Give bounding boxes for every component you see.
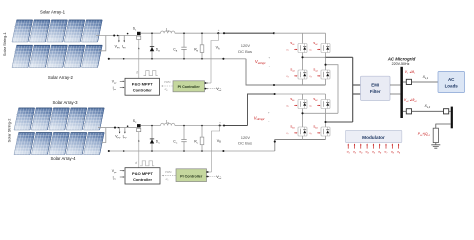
EMI input stub 2 [353,93,361,95]
solar panel 5 of row [84,108,105,130]
panel connector [80,30,81,32]
modulator gate signal arrow alpha6 [379,145,381,149]
node on converter 2 rail after input [127,125,129,127]
solar panel mounting rails [13,27,101,36]
inductor L2 [161,123,175,125]
solar panel 4 of row [66,133,87,155]
solar panel 1 of row [14,108,35,130]
gate arrow of Sa4 [317,75,319,77]
solar panel 1 of row [12,45,33,67]
P&O MPPT controller box (converter 1) [125,78,160,95]
panel connector [30,143,31,145]
panel connector [46,55,47,57]
AC microgrid bus bar 1 [400,67,403,118]
dark DC bus 2 segment [224,125,248,127]
wire DC bus 2 riser to inverter 2 top rail [248,94,275,126]
solar panel 1 of row [12,20,33,42]
svg-text:d: d [135,161,137,165]
panel connector [48,143,49,145]
svg-text:PWM: PWM [164,80,170,84]
solar panel mounting rails [15,139,103,148]
svg-text:α2: α2 [309,50,311,53]
measurement tap Vpv (string 1) [118,36,120,41]
wire converter 1 negative to inverter 1 bottom rail [246,59,326,85]
svg-text:120V: 120V [241,135,251,140]
solar panel 3 of row [47,20,68,42]
panel connector [30,118,31,120]
wire converter 1 positive rail [141,32,224,34]
panel connector [63,30,64,32]
modulator gate signal arrow alpha3 [360,145,362,149]
inverter 1 right leg wire [325,33,327,85]
svg-text:α8: α8 [309,133,311,136]
svg-text:Solar Array-1: Solar Array-1 [40,10,66,15]
AC trunk wire to EMI filter [352,57,354,122]
svg-text:Solar Array-2: Solar Array-2 [48,75,74,80]
inverter 1 left leg wire [302,33,304,85]
resistor RB [201,33,203,45]
svg-text:PWM: PWM [165,170,171,174]
PWM waveform symbol (converter 2) [140,161,154,166]
svg-text:PI Controller: PI Controller [180,174,203,178]
inverter 1 output B wire (series link upper) [326,65,339,114]
inverter switch Sa2 (MOSFET with body diode) [321,44,330,53]
modulator gate signal arrow alpha9 [398,145,400,149]
modulator gate signal arrow alpha2 [354,145,356,149]
Vref arrow into PI controller 1 [206,88,220,90]
svg-text:PI Controller: PI Controller [178,85,201,89]
gate arrow of Sa1 [294,48,296,50]
svg-text:Solar String-2: Solar String-2 [7,119,12,143]
capacitor CC [183,126,185,140]
wire bus bar 2 to load impedance [436,124,451,128]
svg-text:+: + [268,111,270,115]
svg-text:α5: α5 [286,106,288,109]
svg-text:α4: α4 [309,76,311,79]
panel connector [28,30,29,32]
panel connector [46,30,47,32]
EMI output wire 2 [390,93,400,95]
svg-text:-: - [269,64,270,68]
svg-text:Solar Array-3: Solar Array-3 [52,100,78,105]
Vref arrow into PI controller 2 [208,176,221,178]
measurement tap Vpv (string 2) [119,128,121,132]
inverter 2 left leg wire [302,94,304,140]
node VA tap on DC bus 1 [217,32,219,34]
switch S2 (series switch of buck converter 2) [137,124,141,132]
solar panel 5 of row [82,45,103,67]
PWM waveform symbol (converter 1) [144,71,158,76]
solar panel mounting rails [15,115,103,124]
ground symbol [431,145,440,148]
svg-text:+: + [219,120,221,124]
solar panel 3 of row [47,45,68,67]
svg-text:α6: α6 [309,106,311,109]
inverter switch Sb4 (MOSFET with body diode) [321,127,330,136]
switch S1 (series switch of buck converter 1) [137,32,141,40]
feeder wire Xs1 [412,81,439,83]
EMI output wire 1 [390,84,400,86]
panel connector [82,143,83,145]
svg-text:DC Bus: DC Bus [238,49,252,54]
solar panel 5 of row [84,133,105,155]
node junction on string 2 positive wire [114,127,116,129]
current direction arrow Ipv (string 2) [118,127,120,129]
Modulator box [346,130,402,142]
freewheel diode DC [151,126,153,152]
wire converter 2 positive rail [141,125,224,127]
wire from solar string 1 positive to converter 1 [96,35,137,37]
svg-text:AC Microgrid: AC Microgrid [387,56,416,61]
svg-text:α3: α3 [286,76,288,79]
solar panel 3 of row [49,108,70,130]
svg-text:P&O MPPT: P&O MPPT [132,82,153,87]
panel connector [28,55,29,57]
dashed duty signal arrow PI1 to PWM1 [162,85,172,87]
modulator gate signal arrow alpha8 [391,145,393,149]
svg-text:Loads: Loads [445,84,459,89]
panel connector [48,118,49,120]
feeder wire Xs2 [412,110,444,112]
breaker node square 2b [444,109,449,114]
negative rail junction dots converter 1 [123,58,125,60]
freewheel diode DB [151,33,153,59]
negative rail junction dots converter 2 [123,150,125,152]
EMI input stub 1 [353,84,361,86]
resistor RC [201,126,203,138]
inverter switch Sb3 (MOSFET with body diode) [298,127,307,136]
gate arrow of Sb4 [317,132,319,134]
dark DC bus 1 segment [224,32,274,34]
dashed duty signal arrow PI2 to PWM2 [163,175,176,177]
modulator gate signal arrow alpha4 [366,145,368,149]
svg-text:Modulator: Modulator [362,135,385,140]
svg-text:Controller: Controller [133,177,153,182]
wire DC bus 1 to inverter 1 top rail [274,32,326,34]
PI controller 2 box [176,169,207,182]
svg-text:120V: 120V [241,43,251,48]
gate arrow of Sb2 [317,104,319,106]
wire resistor to ground [435,143,437,145]
modulator gate signal arrow alpha7 [385,145,387,149]
gate arrow of Sa2 [317,48,319,50]
VA sense wire to PI controller 1 [211,33,218,83]
inverter 2 right leg wire [325,94,327,140]
modulator gate signal arrow alpha1 [347,145,349,149]
panel connector [65,143,66,145]
gate arrow of Sb3 [294,132,296,134]
inductor L1 [161,31,175,33]
svg-text:-: - [268,120,269,124]
solar panel 1 of row [14,133,35,155]
gate drive wire from PWM to S1 [138,39,140,78]
solar panel 2 of row [29,45,50,67]
load impedance resistor PL2 [433,128,438,142]
measurement tap Ipv (string 2) [124,128,126,132]
wire solar string 2 series link [102,128,106,143]
wire from solar string 2 positive to converter 2 [98,127,137,129]
node on converter 1 rail after input [127,33,129,35]
current direction arrow Ipv [117,35,119,37]
solar panel mounting rails [13,52,101,61]
wire converter 2 negative rail [109,150,275,152]
inverter 2 output B wire (series link lower) [303,112,339,114]
svg-text:Solar String-1: Solar String-1 [2,32,7,56]
measurement tap Ipv (string 1) [123,36,125,41]
node start of converter 2 negative rail [108,150,110,152]
solar panel 4 of row [66,108,87,130]
svg-text:DC Bus: DC Bus [238,140,252,145]
svg-text:+: + [218,28,220,32]
solar panel 4 of row [64,45,85,67]
svg-text:Solar Array-4: Solar Array-4 [50,156,76,161]
panel connector [65,118,66,120]
inverter switch Sa1 (MOSFET with body diode) [298,44,307,53]
solar panel 3 of row [49,133,70,155]
inverter switch Sa4 (MOSFET with body diode) [321,70,330,79]
EMI filter box [361,76,391,100]
P&O MPPT controller box (converter 2) [125,168,160,184]
svg-text:EMI: EMI [371,82,379,87]
capacitor CB [183,33,185,47]
inverter 1 output A wire (to EMI trunk) [303,56,326,58]
panel connector [82,118,83,120]
node junction on string 1 positive wire [113,34,115,36]
inverter switch Sb1 (MOSFET with body diode) [298,100,307,109]
svg-text:220V-50Hz: 220V-50Hz [392,62,410,66]
AC Loads box [438,72,465,93]
svg-text:Controller: Controller [133,88,153,93]
modulator gate signal arrow alpha5 [372,145,374,149]
svg-text:AC: AC [448,77,455,82]
wire converter 2 negative riser to inverter 2 bottom rail [275,140,326,152]
breaker node square 1 [406,79,411,84]
svg-text:+: + [268,55,270,59]
panel connector [63,55,64,57]
node start of converter 1 negative rail [108,58,110,60]
panel connector [80,55,81,57]
inverter 2 output A wire (to EMI trunk) [326,121,353,123]
wire converter 1 negative rail [109,58,247,60]
solar panel 2 of row [31,133,52,155]
node VB tap on DC bus 2 [219,124,221,126]
svg-text:d: d [136,71,138,75]
inverter switch Sa3 (MOSFET with body diode) [298,70,307,79]
wire solar string 1 series link [100,36,106,51]
gate arrow of Sa3 [294,75,296,77]
svg-text:P&O MPPT: P&O MPPT [132,171,153,176]
gate drive wire from PWM to S2 [138,132,140,168]
VB sense wire to PI controller 2 [212,126,220,173]
gate arrow of Sb1 [294,104,296,106]
svg-text:Filter: Filter [370,89,381,94]
AC microgrid bus bar 2 [451,107,453,129]
PI controller 1 box [173,81,205,92]
solar panel 2 of row [31,108,52,130]
solar panel 4 of row [64,20,85,42]
svg-text:α1: α1 [286,50,288,53]
inverter switch Sb2 (MOSFET with body diode) [321,100,330,109]
breaker node square 2a [406,109,411,114]
solar panel 2 of row [29,20,50,42]
solar panel 5 of row [82,20,103,42]
